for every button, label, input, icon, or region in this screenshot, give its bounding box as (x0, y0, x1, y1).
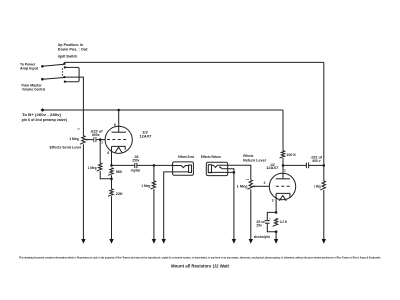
wire: cathode to C2 (112, 164, 135, 166)
wire: return jack tip to pot2 (228, 165, 251, 180)
resistor R5 1 Meg (output load) (320, 181, 325, 190)
svg-text:Effects Send Level: Effects Send Level (50, 146, 82, 150)
svg-text:Return Level: Return Level (243, 159, 265, 163)
wire: C1 to tube1 grid (96, 139, 105, 141)
node: junction sleeve/shorting (233, 171, 236, 174)
node: B+ terminal (40, 108, 44, 111)
svg-text:1 Meg: 1 Meg (237, 184, 248, 188)
svg-text:12AX7: 12AX7 (266, 166, 278, 170)
svg-text:7: 7 (101, 141, 103, 145)
svg-text:Amp Input: Amp Input (20, 67, 39, 71)
node: junction R1 return (110, 178, 113, 181)
svg-text:mylar: mylar (131, 169, 141, 173)
svg-text:dpdt Switch: dpdt Switch (58, 55, 78, 59)
svg-text:3: 3 (272, 199, 274, 203)
ground (R5) (322, 239, 326, 244)
svg-text:2: 2 (264, 181, 266, 185)
resistor R6 100 K (280, 151, 285, 158)
svg-text:Mount all Resistors 1/2 Watt: Mount all Resistors 1/2 Watt (171, 264, 229, 269)
node: cathode output junction (110, 164, 113, 167)
svg-text:100 K: 100 K (286, 153, 296, 157)
node: junction output (323, 164, 326, 167)
svg-text:2.2 K: 2.2 K (280, 220, 288, 224)
wire: B+ rail (43, 109, 283, 111)
ground (V2 cathode) (274, 239, 278, 244)
node: junction grid / R1 (99, 138, 102, 141)
svg-text:560: 560 (116, 170, 122, 174)
svg-text:Up Position: In: Up Position: In (58, 43, 83, 47)
svg-text:6: 6 (114, 123, 116, 127)
ground (J1 sleeve) (162, 239, 166, 244)
wire: tube1 plate lead (118, 110, 120, 132)
svg-text:Volume Control: Volume Control (22, 88, 45, 92)
ground (R3) (109, 239, 113, 244)
svg-text:600v: 600v (92, 133, 100, 137)
resistor R1 1 Meg (grid return) (97, 140, 112, 179)
svg-text:8: 8 (107, 151, 109, 155)
ground (pot1) (81, 239, 85, 244)
wire: B+ corner down to R6 (282, 110, 284, 151)
node: junction R4 (153, 164, 156, 167)
tube V2 1/2 12AX7 (269, 173, 295, 212)
ground (J2) (232, 239, 236, 244)
wire: send jack sleeve to ground (164, 172, 189, 239)
svg-text:600 v: 600 v (313, 159, 321, 163)
capacitor C4 25uf 25v electrolytic (265, 212, 276, 231)
svg-text:+: + (269, 218, 271, 221)
wire: 22K to ground (111, 196, 113, 239)
svg-text:rev: rev (77, 128, 81, 130)
potentiometer VR1 1 Meg Effects Send Level (80, 136, 94, 145)
svg-text:1 Meg: 1 Meg (88, 166, 97, 170)
resistor R4 1 Meg (send load) (151, 165, 156, 239)
wire: pole2 to send level pot (65, 77, 84, 136)
svg-text:1 Meg: 1 Meg (141, 184, 150, 188)
svg-text:pin 6 of 2nd preamp valve): pin 6 of 2nd preamp valve) (22, 118, 68, 122)
wire: pot2 bottom to ground (250, 189, 252, 239)
resistor R2 560 (108, 168, 113, 175)
wire: return jack ground drop (233, 172, 235, 239)
wire: pot1 bottom to ground (82, 144, 84, 239)
potentiometer VR2 1 Meg Effects Return Level (247, 180, 269, 189)
svg-text:1 Meg: 1 Meg (69, 137, 79, 141)
wire: R6 to tube2 plate (282, 158, 284, 179)
svg-text:electrolytic: electrolytic (254, 235, 271, 239)
wire: return jack shorting contact (222, 169, 234, 173)
svg-text:Effects Send: Effects Send (178, 155, 194, 159)
svg-text:Effects Return: Effects Return (201, 155, 221, 159)
wire: cathode to ground (275, 232, 277, 240)
svg-text:Effects: Effects (243, 154, 253, 158)
capacitor C3 .022uf 600v output (306, 163, 308, 169)
jack J1 Effects Send (173, 162, 194, 175)
svg-text:Down Pos. : Out: Down Pos. : Out (58, 47, 89, 51)
wire: R5 to ground (323, 190, 325, 239)
node: cathode junction top (275, 211, 278, 214)
wire: top output line to power amp (64, 61, 323, 63)
svg-text:1: 1 (284, 169, 286, 173)
node: junction tube1 plate on B+ (117, 109, 120, 112)
ground (VR2) (249, 239, 253, 244)
svg-text:rev: rev (246, 179, 250, 181)
wire: 560 to 22K (111, 175, 113, 189)
node: junction plate / C3 (282, 164, 285, 167)
svg-text:This drawing document contains: This drawing document contains informati… (19, 256, 381, 259)
wire: C2 to send jack (137, 164, 172, 166)
jack J2 Effects Return (206, 162, 227, 175)
wire: return jack sleeve (209, 171, 234, 173)
wire: plate to C3 (283, 164, 306, 166)
node: cathode junction bottom (275, 230, 278, 233)
wire: output right vertical (323, 62, 325, 180)
svg-text:250v: 250v (132, 158, 139, 162)
svg-text:25v: 25v (256, 223, 262, 227)
svg-text:22K: 22K (116, 192, 124, 196)
wire: C3 to output line (309, 164, 324, 166)
resistor R7 2.2 K (273, 218, 278, 226)
dpdt switch S1 (41, 62, 66, 82)
capacitor C2 .02 250v mylar (135, 163, 137, 168)
svg-text:To B+ (260v - 280v): To B+ (260v - 280v) (22, 113, 62, 117)
svg-text:1 Meg: 1 Meg (314, 184, 321, 188)
resistor R3 22K (108, 189, 113, 196)
capacitor C1 .022uf 600v (94, 137, 96, 142)
ground (R4) (152, 239, 156, 244)
svg-text:To Power: To Power (20, 62, 36, 66)
tube V1 1/2 12AX7 (105, 126, 132, 165)
svg-text:12AX7: 12AX7 (140, 134, 152, 138)
wire: switch crossover pole1 to pole2 (65, 67, 79, 81)
